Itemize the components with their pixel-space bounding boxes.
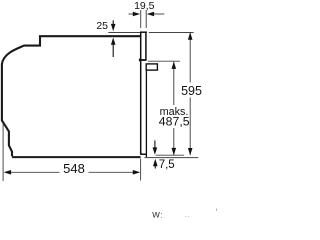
svg-text:': ' bbox=[216, 208, 218, 219]
svg-text:595: 595 bbox=[181, 84, 202, 98]
svg-text:19,5: 19,5 bbox=[134, 0, 155, 12]
svg-text:..: .. bbox=[185, 209, 190, 219]
svg-text:7,5: 7,5 bbox=[159, 159, 175, 171]
svg-text:w: w bbox=[151, 209, 160, 221]
svg-text:25: 25 bbox=[96, 20, 108, 32]
svg-text:487,5: 487,5 bbox=[159, 115, 190, 129]
svg-text:548: 548 bbox=[63, 161, 85, 176]
svg-text::: : bbox=[160, 210, 163, 220]
